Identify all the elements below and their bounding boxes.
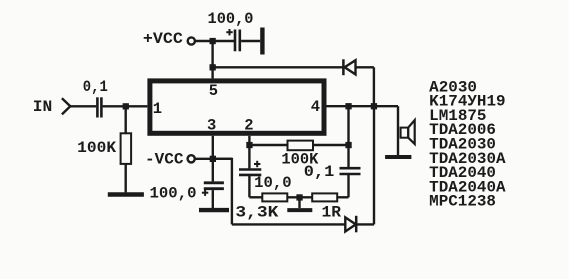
wire input to C1 (70, 105, 96, 107)
wire C5 up to feedback node (347, 145, 349, 168)
node -VCC junction (210, 156, 216, 162)
svg-text:3,3K: 3,3K (235, 203, 279, 221)
label 100,0 (C2) (208, 10, 254, 28)
svg-text:1: 1 (153, 100, 162, 118)
svg-text:2: 2 (244, 116, 253, 134)
ground (center) (287, 208, 312, 212)
node pin4/diode junction (371, 103, 377, 109)
wire R2 to feedback node (313, 144, 349, 146)
diode D1 (343, 59, 355, 75)
label 3,3K (R3) (235, 203, 279, 221)
wire center node to ground (298, 197, 300, 208)
pin 5 label (209, 82, 218, 100)
wire bottom rail to diode D2 (232, 223, 345, 225)
ground (input) (108, 192, 144, 196)
wire +VCC down to pin 5 (211, 41, 213, 78)
pin 3 label (207, 116, 216, 134)
resistor R2 100K feedback (288, 141, 314, 151)
capacitor C4 10,0 (239, 170, 261, 175)
wire R1 to ground (124, 164, 126, 193)
label 100,0 (C3) (150, 185, 197, 203)
svg-text:100,0: 100,0 (208, 10, 254, 28)
svg-text:0,1: 0,1 (304, 163, 335, 181)
capacitor C3 100,0 (204, 183, 224, 189)
terminal +VCC (188, 37, 195, 44)
label 10,0 (C4) (254, 174, 292, 192)
wire -VCC terminal to junction (195, 158, 232, 160)
IC type list (429, 78, 506, 210)
pin 4 label (311, 98, 320, 116)
wire pin 3 down to C3 (212, 136, 214, 182)
label 0,1 (C5) (304, 163, 335, 181)
wire junction down to R1 (124, 106, 126, 133)
svg-text:100K: 100K (77, 139, 117, 157)
wire +VCC terminal to C2 (195, 40, 234, 42)
node pin4/feedback junction (345, 103, 351, 109)
wire output node down to feedback node (347, 106, 349, 145)
ground (speaker) (385, 155, 411, 159)
capacitor C2 100,0 (235, 30, 240, 52)
wire R4 up to C5 (337, 174, 348, 197)
svg-text:-VCC: -VCC (145, 151, 184, 169)
svg-text:+VCC: +VCC (143, 30, 183, 48)
svg-text:3: 3 (207, 116, 216, 134)
node center ground junction (296, 194, 302, 200)
speaker LS1 (401, 120, 415, 144)
svg-text:5: 5 (209, 82, 218, 100)
capacitor C1 0,1 (97, 97, 101, 117)
node +VCC junction (210, 38, 216, 44)
wire speaker column down (397, 106, 399, 155)
capacitor C5 0,1 (340, 168, 361, 174)
resistor R1 100K vertical (121, 133, 132, 164)
plus sign C3 (202, 190, 208, 196)
plus sign C2 (226, 29, 232, 35)
label IN (33, 98, 53, 116)
wire pin 2 down (248, 136, 250, 169)
ground (-VCC cap) (199, 208, 229, 212)
svg-text:IN: IN (33, 98, 53, 116)
svg-text:10,0: 10,0 (254, 174, 292, 192)
svg-text:1R: 1R (322, 203, 342, 221)
wire D2 to right corner (356, 223, 374, 225)
wire corner down to output node (373, 67, 375, 106)
ground (top right) (260, 28, 264, 55)
wire D1 to right corner (356, 66, 374, 68)
label 1R (R4) (322, 203, 342, 221)
node pin 2 junction (246, 142, 252, 148)
label 100K (R1) (77, 139, 117, 157)
resistor R4 1R (312, 193, 337, 201)
op-amp U1 body (150, 81, 324, 133)
input connector J1 (62, 98, 70, 114)
pin 2 label (244, 116, 253, 134)
terminal -VCC (188, 155, 195, 162)
node feedback/output junction (345, 142, 351, 148)
node top rail junction (210, 64, 216, 70)
plus sign C4 (254, 161, 260, 167)
label -VCC (145, 151, 184, 169)
wire R3 to center node (287, 196, 312, 198)
wire C1 to pin 1 (103, 105, 148, 107)
label 100K (R2) (281, 151, 319, 169)
wire -VCC junction to bottom rail corner (213, 158, 232, 225)
wire C3 to ground (212, 190, 214, 208)
node pin1/R1 junction (123, 103, 129, 109)
svg-text:0,1: 0,1 (83, 78, 108, 96)
svg-text:MPC1238: MPC1238 (429, 193, 496, 211)
svg-text:100,0: 100,0 (150, 185, 197, 203)
label +VCC (143, 30, 183, 48)
resistor R3 3,3K (262, 193, 287, 201)
svg-text:4: 4 (311, 98, 320, 116)
wire pin 4 to speaker column (327, 105, 399, 107)
wire top rail to diode D1 (213, 66, 343, 68)
wire corner up to output node (373, 106, 375, 224)
label 0,1 (C1) (83, 78, 108, 96)
wire pin2 node to R2 (249, 144, 287, 146)
diode D2 (345, 216, 356, 233)
wire C2 to ground (241, 40, 260, 42)
pin 1 label (153, 100, 162, 118)
wire C4 down to R3 (249, 175, 262, 197)
